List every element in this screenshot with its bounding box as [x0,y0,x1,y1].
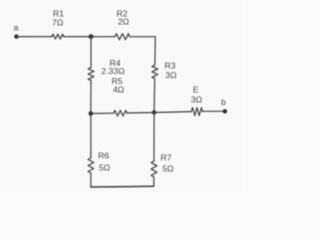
wire R2 to corner [130,36,156,38]
svg-text:b: b [221,97,226,107]
svg-text:5Ω: 5Ω [162,164,174,174]
wire R4 to middle junction [90,80,92,113]
resistor R4 [88,68,94,81]
wire left vertical lower [90,114,92,159]
wire R7 to bottom corner [153,177,155,186]
wire right vertical upper [154,37,156,65]
wire cross to E [154,111,191,114]
wire right vertical lower [153,113,155,162]
resistor R7 [151,161,157,177]
svg-text:4Ω: 4Ω [113,85,125,95]
node junction top [89,34,94,39]
wire R6 to bottom corner [90,173,92,187]
resistor R6 [88,158,94,173]
wire R1 to junction [64,36,91,38]
wire middle junction to R5 [91,112,114,114]
node b [223,109,227,113]
svg-text:R7: R7 [160,153,171,163]
resistor E [191,108,202,116]
node a [14,34,18,38]
svg-text:R3: R3 [164,61,175,71]
resistor R5 [114,110,128,116]
node cross right [152,110,156,114]
svg-text:3Ω: 3Ω [191,95,203,105]
svg-text:a: a [14,23,19,33]
svg-text:2.33Ω: 2.33Ω [101,66,125,76]
wire R3 to cross [153,79,156,113]
resistor R3 [152,65,158,79]
svg-text:7Ω: 7Ω [52,18,64,28]
wire junction to R2 [91,36,115,38]
resistor R1 [52,34,64,39]
svg-text:E: E [193,85,199,95]
node middle left [89,111,94,116]
svg-text:R6: R6 [98,151,109,161]
wire E to node b [203,110,225,112]
wire middle vertical top [90,37,92,68]
wire a to R1 [16,36,51,38]
resistor R2 [115,34,130,40]
scan noise [0,0,242,192]
svg-text:2Ω: 2Ω [118,17,130,27]
wire bottom [91,185,154,188]
svg-text:5Ω: 5Ω [99,163,111,173]
wire R5 to cross [127,112,154,115]
svg-text:3Ω: 3Ω [165,70,177,80]
